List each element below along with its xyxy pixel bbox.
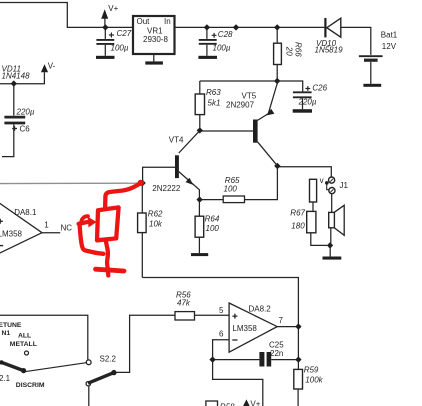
transistor VT4 base bar (175, 155, 179, 178)
resistor R65 (200, 199, 224, 201)
arrow V- (41, 64, 48, 72)
battery Bat1 (359, 55, 383, 57)
op-amp DA8.1 plus input (0, 219, 3, 224)
svg-text:2930-8: 2930-8 (143, 35, 168, 44)
svg-text:R66: R66 (294, 42, 303, 57)
svg-text:DA8.1: DA8.1 (14, 208, 37, 217)
resistor R62 (141, 183, 143, 213)
junction C25 right node (295, 356, 301, 362)
op-amp DA8.2 minus input (232, 339, 237, 341)
svg-text:100µ: 100µ (213, 44, 231, 53)
svg-text:Bat1: Bat1 (381, 31, 398, 40)
junction R66 C26 VT5 emitter node (274, 78, 280, 84)
resistor R67 lower (307, 211, 316, 232)
svg-text:100: 100 (206, 224, 220, 233)
svg-text:5k1: 5k1 (208, 99, 221, 108)
transistor VT5 wires (200, 130, 253, 132)
svg-text:1N4148: 1N4148 (2, 72, 31, 81)
junction R63 VT5 base node (197, 127, 203, 133)
svg-text:1N5819: 1N5819 (315, 46, 344, 55)
svg-text:7: 7 (279, 316, 284, 325)
switch S2.1 wiper line (26, 363, 87, 372)
svg-text:5: 5 (219, 306, 224, 315)
junction top rail mid (233, 24, 239, 30)
svg-text:VT5: VT5 (242, 91, 257, 100)
resistor R63 (199, 81, 201, 94)
svg-text:N1: N1 (2, 330, 11, 337)
switch S2.2 bar (88, 373, 114, 384)
junction top rail C28 (204, 24, 210, 30)
ground VR1 (145, 61, 163, 64)
svg-text:RETUNE: RETUNE (0, 322, 22, 329)
capacitor C27 plus (109, 33, 114, 38)
junction C25 left node (209, 356, 215, 362)
svg-text:220µ: 220µ (298, 98, 317, 107)
junction VT5 collector node (274, 163, 280, 169)
svg-text:10k: 10k (149, 219, 163, 228)
capacitor C6 plus (12, 126, 17, 131)
svg-text:22n: 22n (270, 349, 283, 358)
wire VT4 base (143, 167, 175, 183)
wire pin6 node down (213, 360, 263, 406)
wire S2.2 to R56 (117, 315, 176, 372)
svg-text:2N2222: 2N2222 (152, 184, 181, 193)
switch S2.1 end blob (21, 368, 26, 373)
jack J1 switch dot (325, 181, 329, 185)
svg-text:J1: J1 (340, 181, 349, 190)
switch S2.1 pivot dot (0, 360, 4, 364)
transistor VT4 emitter arrow (186, 178, 194, 185)
ground speaker (323, 257, 342, 260)
svg-text:2.1: 2.1 (0, 374, 11, 383)
resistor R56 (175, 312, 195, 320)
svg-text:V+: V+ (108, 4, 118, 13)
transistor VT5 emitter arrow (266, 109, 274, 116)
transistor VT5 base bar (253, 120, 258, 143)
svg-text:METALL: METALL (10, 341, 37, 348)
ground C28 (198, 56, 217, 59)
diode VD10 (327, 18, 341, 37)
svg-text:220µ: 220µ (16, 108, 35, 117)
switch S2.1 bar (2, 362, 24, 370)
svg-text:V-: V- (48, 62, 56, 71)
capacitor C28 plus (212, 33, 217, 38)
capacitor C26 (293, 91, 312, 93)
arrow V+ top (101, 9, 108, 19)
svg-text:R63: R63 (206, 88, 221, 97)
op-amp DA8.1 (0, 184, 42, 233)
svg-text:R62: R62 (148, 209, 163, 218)
svg-text:C28: C28 (218, 30, 233, 39)
svg-text:R67: R67 (290, 209, 305, 218)
wire gray net to VT4 base node (0, 182, 141, 184)
capacitor C25 plates (259, 352, 264, 367)
red junction dot (138, 180, 144, 186)
switch S2.2 top contact (111, 370, 116, 375)
svg-text:180: 180 (291, 222, 305, 231)
svg-text:12V: 12V (382, 42, 397, 51)
wire V+ stub (104, 19, 106, 28)
resistor R67 upper (310, 179, 317, 202)
svg-text:R58: R58 (220, 403, 235, 406)
ground Bat1 (363, 84, 381, 87)
svg-text:LM358: LM358 (0, 230, 23, 239)
diode VD10 cathode bar (324, 18, 326, 37)
capacitor C6 (13, 84, 15, 116)
svg-text:VT4: VT4 (169, 135, 184, 144)
op-amp DA8.1 minus input (0, 245, 3, 247)
capacitor C28 (206, 27, 208, 39)
capacitor C25 wires (213, 359, 260, 361)
wire VD10 to Bat1 (341, 27, 371, 55)
resistor R66 (276, 27, 278, 43)
wire feedback bottom (142, 278, 298, 370)
resistor R59 (294, 369, 303, 389)
junction top rail C27 (102, 24, 108, 30)
svg-text:S2.2: S2.2 (100, 354, 117, 363)
svg-text:1: 1 (44, 221, 49, 230)
wire VD11 node to V- (0, 72, 44, 84)
svg-text:47k: 47k (177, 298, 191, 307)
capacitor C27 (104, 27, 106, 39)
transistor VT4 emitter (179, 172, 200, 200)
resistor R58 partial bottom (206, 401, 218, 406)
op-amp DA8.2 plus input (232, 314, 237, 319)
svg-text:100µ: 100µ (111, 44, 129, 53)
switch S2.1 contact circles (86, 360, 91, 365)
wire rail VR1 to VD10 (175, 26, 325, 28)
svg-text:DA8.2: DA8.2 (249, 305, 272, 314)
ground C26 (293, 109, 312, 113)
regulator VR1 box (133, 16, 175, 54)
svg-text:20: 20 (285, 46, 294, 56)
svg-text:2N2907: 2N2907 (226, 101, 255, 110)
red annotation scribble (79, 183, 142, 276)
junction VD11 node (11, 80, 17, 86)
switch S2.2 lower contact (86, 382, 90, 386)
svg-text:R59: R59 (304, 365, 319, 374)
svg-text:6: 6 (219, 330, 224, 339)
arrow V+ bottom (243, 399, 250, 406)
wire R63 top to C26 (200, 81, 303, 91)
svg-text:C26: C26 (312, 84, 327, 93)
ground wire speaker node (329, 245, 331, 256)
svg-text:100k: 100k (305, 376, 323, 385)
wire pin7 output (277, 326, 298, 328)
svg-text:LM358: LM358 (232, 324, 257, 333)
svg-text:v: v (320, 176, 324, 185)
red arrowhead (88, 217, 97, 228)
wire retune net (0, 315, 88, 360)
junction DA8.2 output node (295, 323, 301, 329)
speaker (329, 212, 335, 227)
svg-text:ALL: ALL (18, 333, 31, 340)
svg-text:NC: NC (61, 224, 73, 233)
resistor R64 (198, 200, 200, 217)
svg-text:In: In (164, 17, 171, 26)
wire pin6 (213, 340, 230, 360)
ground R64 (191, 253, 208, 256)
capacitor C26 plus (305, 86, 310, 91)
junction top rail R66 (274, 24, 280, 30)
svg-text:V+: V+ (250, 399, 260, 406)
svg-text:C6: C6 (20, 125, 31, 134)
svg-text:100: 100 (224, 185, 238, 194)
junction VT4 base node (139, 180, 145, 186)
svg-text:R64: R64 (205, 214, 220, 223)
wire collector node to jack (277, 167, 331, 177)
ground C27 (96, 56, 115, 59)
svg-text:DISCRIM: DISCRIM (16, 382, 45, 389)
transistor VT4 collector (179, 131, 200, 153)
junction VT4 emitter R65 node (196, 196, 202, 202)
svg-text:C27: C27 (117, 29, 132, 38)
svg-text:Out: Out (137, 17, 151, 26)
wire top rail left (0, 3, 133, 28)
junction speaker R67 node (327, 242, 333, 248)
op-amp DA8.2 (229, 303, 277, 352)
jack J1 contacts (329, 177, 335, 183)
